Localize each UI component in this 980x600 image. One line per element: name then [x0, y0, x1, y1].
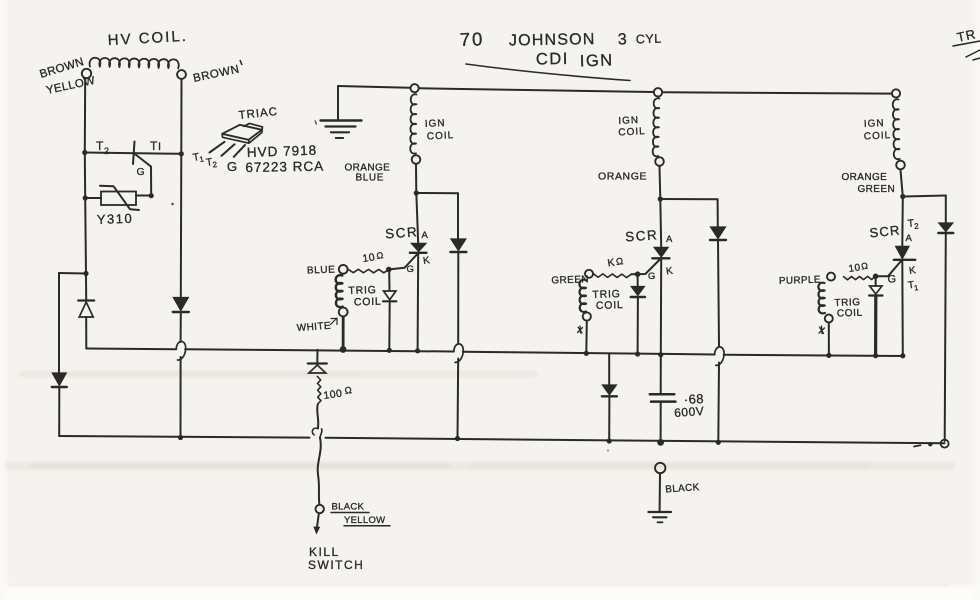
scr Q3 triangle: [896, 247, 909, 259]
scr Q2 triangle: [654, 248, 668, 257]
svg-text:IGN: IGN: [425, 118, 446, 130]
wire scr1 gate diode stem: [388, 270, 390, 291]
node scr3 cathode mid bus: [900, 353, 905, 358]
node coil1 junction: [414, 190, 419, 195]
wire D2 through mid-bus hop to bottom bus: [180, 312, 182, 438]
svg-text:BLUE: BLUE: [356, 173, 385, 184]
asterisk (trig 3): [819, 326, 825, 334]
svg-text:SCR: SCR: [625, 227, 659, 244]
svg-text:T: T: [150, 139, 158, 153]
svg-text:K: K: [665, 266, 674, 278]
resistor R4 10ohm: [844, 276, 876, 279]
hv coil winding: [90, 58, 179, 69]
label T2 (circuit): [96, 139, 110, 156]
svg-text:Y310: Y310: [97, 211, 134, 227]
wire hv-right down to T1 node: [180, 79, 182, 153]
label T1 (package): [192, 151, 205, 164]
ign coil 1 bottom terminal: [412, 155, 421, 164]
title line 1: 70 JOHNSON 3 CYL: [459, 28, 662, 50]
ign coil 2 top terminal: [654, 88, 662, 96]
svg-text:IGN: IGN: [618, 115, 639, 127]
label 100ohm: [323, 385, 353, 402]
mid bus hop over D5 wire: [715, 347, 724, 365]
svg-text:COIL: COIL: [837, 308, 863, 320]
label 10ohm (1): [362, 250, 385, 265]
wire V310 node down to lower junction: [84, 198, 87, 274]
title underline: [466, 64, 630, 81]
svg-text:G: G: [648, 271, 656, 282]
resistor R2 100ohm: [317, 377, 321, 405]
svg-text:I: I: [158, 141, 162, 153]
label YELLOW (left): [45, 75, 96, 97]
label 600V: [674, 404, 705, 420]
wire V310 right lead: [136, 195, 151, 197]
wire top bus: [338, 86, 891, 94]
svg-text:A: A: [666, 234, 673, 245]
svg-text:K: K: [422, 255, 431, 267]
triac lead T2: [222, 144, 235, 156]
node D5 bottom junction: [716, 440, 721, 445]
label ORANGE BLUE (1): [345, 163, 391, 184]
wire left drop upper: [58, 273, 60, 373]
svg-text:2: 2: [914, 222, 920, 231]
label Y310: [97, 211, 134, 227]
svg-text:Ω: Ω: [615, 256, 624, 268]
label BROWN (left): [38, 56, 85, 81]
label SCR (2): [625, 227, 659, 244]
wire left drop lower: [58, 387, 60, 436]
wire scr3 anode: [901, 197, 904, 247]
label K (3): [908, 265, 917, 277]
svg-text:IGN: IGN: [864, 118, 885, 130]
label T2 (scr3): [907, 217, 920, 231]
svg-text:GREEN: GREEN: [858, 184, 896, 195]
wire scr2 gate diode stem: [637, 274, 639, 286]
svg-text:PURPLE: PURPLE: [779, 275, 821, 287]
capacitor C1 plates: [650, 394, 676, 401]
label T2 (package): [205, 156, 218, 169]
label SCR (3): [869, 222, 901, 240]
battery/ground terminal circle: [655, 463, 665, 473]
triac package body: [222, 123, 262, 143]
ign coil 1 winding: [410, 94, 416, 153]
label IGN COIL (2): [618, 115, 646, 139]
wire D10 to bottom bus: [945, 233, 946, 441]
resistor R3 1Kohm: [593, 274, 631, 278]
svg-text:ORANGE: ORANGE: [842, 172, 888, 183]
wire scr3 gate diode stem: [875, 276, 877, 285]
wire D11 to mid bus (thick): [874, 296, 877, 356]
svg-text:G: G: [407, 264, 415, 275]
node D3 bottom junction: [455, 436, 460, 441]
wire scr1 anode: [416, 193, 418, 243]
svg-text:CDI: CDI: [536, 50, 569, 69]
label TRIG COIL (3): [834, 297, 863, 319]
trig coil 1 bottom terminal: [339, 308, 348, 317]
diode D4 (gate ch1): [383, 291, 396, 301]
hv coil right terminal: [177, 70, 186, 79]
svg-text:3: 3: [618, 31, 628, 48]
scr Q3 gate lead: [876, 261, 902, 277]
ink speck mid page: [607, 450, 609, 452]
label HVD 7918: [247, 143, 318, 160]
label T1 (circuit): [150, 139, 162, 153]
wire D9 to bottom bus: [608, 397, 610, 442]
label PURPLE (trig 3): [779, 275, 821, 287]
label TRIG COIL (1): [348, 284, 382, 308]
wire diode branch 1 upper: [457, 193, 459, 238]
svg-text:10: 10: [848, 262, 862, 275]
node coil2 junction: [658, 196, 663, 201]
wire scr3 cathode down to mid bus: [901, 261, 904, 356]
trig coil 2 bottom terminal: [583, 312, 591, 320]
diode D2 (pointing down): [173, 298, 189, 313]
wire D5 through hop to bottom bus: [718, 240, 719, 442]
scr Q1 gate lead: [390, 254, 418, 270]
node coil3 junction: [900, 194, 905, 199]
node C1 bottom bus: [657, 439, 664, 446]
svg-text:K: K: [908, 265, 917, 277]
svg-text:BLACK: BLACK: [332, 502, 365, 513]
trig coil 3 winding: [818, 283, 825, 314]
label G (1): [407, 264, 415, 275]
label YELLOW (kill): [344, 515, 390, 526]
label G (2): [648, 271, 656, 282]
label BROWN (right): [192, 60, 242, 85]
svg-text:COIL: COIL: [427, 130, 455, 142]
svg-text:70: 70: [459, 28, 484, 50]
scr Q1 cathode bar: [410, 252, 427, 254]
diode D6 (pointing down): [52, 373, 67, 387]
wire coil3 to junction: [901, 170, 903, 197]
node D11 mid bus: [873, 353, 878, 358]
wire terminal to ground: [659, 473, 661, 510]
node D8 mid bus: [635, 351, 640, 356]
varistor V310 strike: [100, 186, 139, 210]
label TRIG COIL (2): [592, 288, 624, 312]
wire D1 to mid bus: [85, 317, 87, 349]
wire diode branch 3 upper: [945, 196, 947, 223]
svg-text:G: G: [227, 159, 238, 174]
diode D10 (freewheel ch3): [938, 223, 953, 233]
trig coil 3 bottom terminal: [825, 315, 833, 323]
wire diode branch 2 upper: [717, 199, 719, 226]
label 10ohm (3): [848, 261, 869, 275]
svg-text:2: 2: [104, 146, 110, 156]
wire junction to diode branch 1: [416, 192, 458, 194]
mid bus hop over D3 wire: [454, 344, 463, 362]
svg-text:SWITCH: SWITCH: [308, 558, 364, 572]
title line 2: CDI IGN: [536, 50, 614, 71]
ign coil 3 winding: [893, 99, 900, 159]
wire hv-left down to T2 node: [84, 79, 86, 152]
cut-off text TR (top right): [953, 26, 980, 60]
node scr3 gate: [873, 274, 879, 280]
wire V310 left lead: [85, 197, 101, 199]
node scr1 gate: [386, 267, 392, 273]
mid bus hop over T1 wire: [176, 341, 185, 360]
diode D9 (pointing down): [602, 385, 617, 396]
label G (package): [227, 159, 238, 174]
wire T2-T1 link: [85, 153, 182, 154]
trig coil 2 winding: [579, 280, 586, 312]
svg-text:COIL: COIL: [864, 130, 892, 142]
label HV COIL: [107, 28, 188, 49]
ign coil 2 bottom terminal: [655, 157, 664, 166]
svg-text:10: 10: [362, 251, 376, 265]
label BLACK (ground): [665, 482, 700, 495]
ign coil 3 top terminal: [892, 89, 900, 97]
wire mid bus to D9: [608, 354, 610, 385]
label IGN COIL (3): [864, 118, 892, 143]
diode D11 (gate ch3): [869, 286, 882, 296]
wire hop to kill switch terminal: [318, 437, 321, 504]
trig coil 1 winding: [336, 275, 343, 307]
triac bar: [133, 142, 135, 165]
wire junction to diode branch 2: [660, 198, 717, 200]
wire scr2 cathode down to mid bus: [660, 259, 662, 355]
label 1Kohm (2): [607, 256, 625, 269]
trig coil 3 top terminal: [827, 273, 835, 281]
wire mid bus to D7: [316, 350, 318, 363]
wire mid bus to capacitor C1: [660, 355, 662, 394]
node scr1 cathode mid bus: [415, 348, 420, 353]
node scr2 gate: [635, 271, 641, 277]
wire D8 to mid bus: [637, 298, 639, 355]
label G (3): [888, 274, 897, 286]
label A (2): [666, 234, 673, 245]
label T1 (scr3): [907, 280, 919, 293]
ground symbol (bottom): [649, 512, 672, 522]
label GREEN (trig 2): [551, 274, 589, 286]
svg-text:JOHNSON: JOHNSON: [509, 31, 596, 50]
svg-text:ORANGE: ORANGE: [598, 171, 647, 183]
wire junction down to diode D1: [85, 274, 87, 300]
node T1 junction: [179, 151, 184, 156]
wire top-ground stem: [337, 86, 339, 119]
svg-text:COIL: COIL: [354, 296, 382, 309]
diode D1 (cathode up): [78, 301, 94, 318]
wire R2 to kill switch hop: [317, 404, 318, 429]
wire mid bus: [86, 349, 903, 357]
label KILL SWITCH: [308, 545, 364, 572]
diode D3 (freewheel ch1): [450, 239, 466, 252]
svg-text:COIL: COIL: [618, 126, 646, 138]
label BLUE (trig 1): [307, 265, 336, 277]
ink speck near V310: [171, 203, 174, 206]
svg-text:IGN: IGN: [580, 51, 614, 70]
wire scr2 anode: [659, 199, 662, 247]
svg-text:KILL: KILL: [309, 545, 340, 559]
svg-text:G: G: [137, 166, 146, 178]
scr Q3 cathode bar: [894, 259, 916, 261]
label WHITE (trig 1): [296, 318, 337, 334]
svg-text:600V: 600V: [674, 404, 705, 420]
node bottom bus small dot right: [928, 442, 932, 446]
triac lead G: [234, 145, 245, 157]
wire scr1 cathode down to mid bus: [417, 254, 420, 351]
wire bottom bus: [59, 436, 944, 443]
wire junction to diode branch 3: [903, 196, 946, 197]
asterisk (trig 2): [578, 326, 583, 333]
label ORANGE GREEN (3): [842, 172, 896, 195]
ign coil 2 winding: [653, 98, 660, 156]
svg-text:G: G: [888, 274, 897, 286]
scr Q2 cathode bar: [652, 257, 669, 259]
label A (1): [422, 230, 429, 241]
wire junction to left drop: [59, 272, 86, 275]
node trig3 mid bus: [826, 353, 831, 358]
node D2 bottom bus junction: [178, 435, 183, 440]
label TRIAC: [238, 106, 279, 122]
diode D7 (cathode up): [308, 364, 327, 374]
trig coil 1 top terminal: [339, 265, 348, 274]
ink speck near BROWN comma: [315, 121, 317, 125]
wire trig1 to mid bus (thick): [342, 317, 345, 350]
svg-text:Ω: Ω: [860, 261, 869, 272]
svg-text:Ω: Ω: [344, 385, 353, 397]
node triac gate to V310: [149, 193, 154, 198]
wire coil2 to junction: [659, 167, 662, 200]
kill switch hop over bottom bus: [312, 428, 322, 438]
kill switch arrow: [313, 514, 320, 535]
diode D5 (freewheel ch2): [710, 227, 726, 240]
scr Q2 gate lead: [631, 259, 660, 274]
node trig2 mid bus: [584, 351, 589, 356]
label BLACK (kill): [331, 502, 369, 513]
label IGN COIL (1): [425, 118, 455, 143]
wire D3 through hop to bottom bus: [457, 252, 460, 439]
label K (2): [665, 266, 674, 278]
wire trig3 to mid bus: [828, 323, 830, 356]
triac lead T1: [210, 142, 225, 153]
trig coil 2 top terminal: [585, 270, 593, 278]
node D9 bottom bus: [607, 438, 612, 443]
node lower-left junction: [83, 271, 88, 276]
wire trig2 to mid bus: [585, 321, 588, 353]
label G (triac gate): [137, 166, 146, 178]
svg-text:COIL: COIL: [596, 299, 624, 312]
svg-text:A: A: [906, 233, 913, 244]
kill switch terminal: [316, 505, 324, 513]
wire coil1 to junction: [415, 165, 417, 193]
svg-text:SCR: SCR: [385, 224, 419, 241]
node T2 junction: [82, 150, 87, 155]
svg-text:HVD 7918: HVD 7918: [247, 143, 318, 160]
scr Q1 triangle: [412, 244, 426, 252]
ign coil 3 bottom terminal: [896, 161, 905, 170]
label ORANGE (2): [598, 171, 647, 183]
label K (1): [422, 255, 431, 267]
svg-text:Ω: Ω: [376, 250, 385, 261]
svg-text:67223 RCA: 67223 RCA: [245, 159, 324, 175]
label .68: [683, 391, 704, 407]
wire C1 to bottom bus: [660, 403, 662, 443]
bottom bus right end terminal: [941, 440, 949, 448]
varistor V310 body: [101, 192, 136, 206]
svg-text:CYL: CYL: [636, 32, 662, 47]
triac gate diagonal: [136, 155, 152, 196]
svg-text:BLUE: BLUE: [307, 265, 336, 277]
svg-text:YELLOW: YELLOW: [344, 515, 385, 526]
node D4 mid bus: [387, 348, 392, 353]
svg-text:T: T: [96, 139, 104, 153]
label A (3): [906, 233, 913, 244]
wire D4 to mid bus: [388, 302, 390, 351]
diode D8 (gate ch2): [631, 287, 645, 298]
label SCR (1): [385, 224, 419, 241]
resistor R1 10ohm: [348, 269, 389, 273]
node scr2 cathode mid bus: [658, 352, 663, 357]
wire T1 node down to diode D2: [180, 154, 183, 298]
ground symbol (top): [321, 121, 362, 139]
svg-text:A: A: [422, 230, 429, 241]
ign coil 1 top terminal: [411, 84, 419, 92]
wire T2 node down to V310 node: [84, 153, 86, 199]
tick on bottom bus: [914, 445, 921, 446]
label 67223 RCA: [245, 159, 324, 175]
node trig1 mid bus: [340, 346, 347, 353]
hv coil left terminal: [82, 69, 91, 78]
node V310 left junction: [83, 195, 88, 200]
